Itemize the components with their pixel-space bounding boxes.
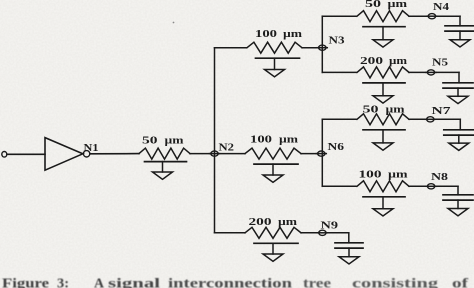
svg-text:A: A	[94, 277, 105, 288]
wire down to C4	[457, 186, 459, 195]
svg-text:100: 100	[255, 29, 277, 40]
distributed capacitance plate of R6	[363, 82, 405, 84]
ground of R4	[263, 254, 283, 261]
wire down to C3	[459, 119, 461, 130]
svg-text:N8: N8	[431, 172, 448, 183]
svg-text:200: 200	[249, 217, 272, 228]
distributed capacitance plate of R1	[145, 161, 187, 163]
svg-text:µm: µm	[279, 135, 299, 146]
svg-text:signal: signal	[108, 277, 160, 288]
svg-text:N4: N4	[433, 2, 449, 13]
ground of R2	[265, 70, 285, 77]
ground of R8	[373, 209, 393, 216]
inverter U1	[45, 138, 83, 171]
svg-text:µm: µm	[388, 169, 408, 180]
wire N7 to C3	[434, 118, 461, 120]
svg-text:µm: µm	[386, 105, 406, 116]
wire down to C1	[459, 16, 461, 26]
node N9	[317, 232, 327, 234]
svg-text:of: of	[452, 277, 468, 288]
wire N6 to R7	[322, 118, 356, 120]
ground stem of R5	[382, 27, 384, 40]
ground below C2	[448, 96, 468, 103]
resistor R3 (100 µm)	[245, 148, 301, 159]
ground of R3	[263, 175, 283, 182]
wire N3 to R6	[322, 71, 356, 73]
svg-text:Figure: Figure	[2, 277, 49, 288]
capacitor C2 top plate	[443, 82, 473, 84]
capacitor C3 bottom plate	[444, 134, 474, 136]
wire N9 to C5	[326, 232, 349, 234]
resistor R6 (200 µm)	[357, 67, 409, 78]
scan speck	[173, 22, 175, 24]
svg-text:µm: µm	[283, 29, 303, 40]
ground stem below C1	[459, 31, 461, 40]
ground below C4	[448, 209, 468, 216]
svg-text:50: 50	[363, 105, 379, 116]
wire N5 to C2	[435, 71, 460, 73]
wire N2 vertical trunk	[214, 48, 216, 233]
svg-text:N6: N6	[328, 142, 345, 153]
ground below C3	[449, 143, 469, 150]
svg-text:100: 100	[250, 135, 272, 146]
resistor R7 (50 µm)	[357, 114, 409, 125]
wire down to C2	[458, 72, 460, 82]
resistor R4 (200 µm)	[245, 227, 301, 238]
wire R1 to N2	[190, 153, 211, 155]
wire N2 to R3	[218, 153, 245, 155]
node N2	[210, 153, 220, 155]
capacitor C5 top plate	[335, 242, 363, 244]
capacitor C3 top plate	[444, 129, 474, 131]
ground of R1	[153, 172, 173, 179]
wire down to C5	[348, 233, 350, 243]
svg-text:N9: N9	[321, 221, 339, 232]
node N4	[427, 15, 437, 17]
wire R4 to N9	[301, 232, 319, 234]
svg-text:µm: µm	[278, 217, 298, 228]
wire R3 to N6	[301, 153, 318, 155]
node N8	[426, 185, 436, 187]
ground of R6	[373, 96, 393, 103]
ground below C5	[339, 257, 359, 264]
svg-text:consisting: consisting	[352, 277, 438, 288]
ground stem of R1	[162, 162, 164, 172]
svg-text:N7: N7	[432, 106, 451, 117]
ground stem of R8	[382, 197, 384, 209]
node N7	[425, 118, 435, 120]
ground stem below C2	[457, 88, 459, 96]
svg-text:µm: µm	[165, 136, 185, 147]
svg-text:N1: N1	[84, 143, 99, 154]
resistor R2 (100 µm)	[247, 42, 302, 53]
distributed capacitance plate of R7	[363, 129, 405, 131]
svg-text:N3: N3	[329, 36, 345, 47]
svg-text:100: 100	[359, 169, 382, 180]
wire trunk to R4	[215, 232, 246, 234]
distributed capacitance plate of R5	[363, 26, 405, 28]
ground stem of R6	[382, 83, 384, 96]
ground stem of R3	[272, 164, 274, 175]
caption: Figure 3	[2, 277, 468, 288]
wire input to inverter	[7, 153, 45, 155]
svg-text:50: 50	[365, 0, 381, 10]
svg-text:µm: µm	[388, 0, 408, 10]
wire N4 to C1	[435, 15, 460, 17]
ground of R5	[373, 40, 393, 47]
wire N3 vertical	[321, 16, 323, 72]
svg-text:200: 200	[360, 56, 383, 67]
ground below C1	[450, 40, 470, 47]
ground stem of R2	[274, 58, 276, 69]
resistor R1 (50 µm)	[139, 148, 190, 159]
node N3	[317, 47, 327, 49]
ground stem of R4	[272, 243, 274, 254]
wire N6 to R8	[322, 185, 356, 187]
svg-text:interconnection: interconnection	[168, 277, 292, 288]
wire R2 to N3	[302, 47, 319, 49]
ground stem below C3	[458, 135, 460, 143]
resistor R8 (100 µm)	[357, 181, 409, 192]
svg-text:N2: N2	[219, 143, 235, 154]
wire trunk to R2	[215, 47, 247, 49]
wire R6 to N5	[409, 71, 428, 73]
node N5	[426, 71, 436, 73]
inverter output bubble	[83, 151, 89, 157]
ground stem of R7	[382, 130, 384, 143]
capacitor C5 bottom plate	[335, 247, 363, 249]
ground stem below C4	[457, 200, 459, 208]
wire R8 to N8	[409, 185, 428, 187]
ground of R7	[373, 143, 393, 150]
svg-text:50: 50	[142, 136, 158, 147]
wire R5 to N4	[409, 15, 428, 17]
distributed capacitance plate of R3	[254, 163, 298, 165]
svg-text:N5: N5	[432, 58, 448, 69]
capacitor C4 top plate	[443, 194, 473, 196]
input terminal	[2, 152, 7, 158]
wire N8 to C4	[435, 185, 458, 187]
wire N3 to R5	[322, 15, 356, 17]
svg-text:3:: 3:	[57, 277, 69, 288]
distributed capacitance plate of R8	[363, 196, 405, 198]
wire N1 to R1	[90, 153, 139, 155]
wire R7 to N7	[409, 118, 427, 120]
capacitor C1 bottom plate	[445, 30, 474, 32]
svg-text:µm: µm	[389, 56, 408, 67]
svg-text:tree: tree	[303, 277, 331, 288]
capacitor C1 top plate	[445, 25, 474, 27]
node N6	[316, 153, 326, 155]
distributed capacitance plate of R2	[256, 57, 300, 59]
wire N6 vertical	[321, 119, 323, 186]
distributed capacitance plate of R4	[254, 242, 298, 244]
capacitor C4 bottom plate	[443, 199, 473, 201]
resistor R5 (50 µm)	[357, 11, 409, 22]
ground stem below C5	[348, 248, 350, 257]
capacitor C2 bottom plate	[443, 87, 473, 89]
